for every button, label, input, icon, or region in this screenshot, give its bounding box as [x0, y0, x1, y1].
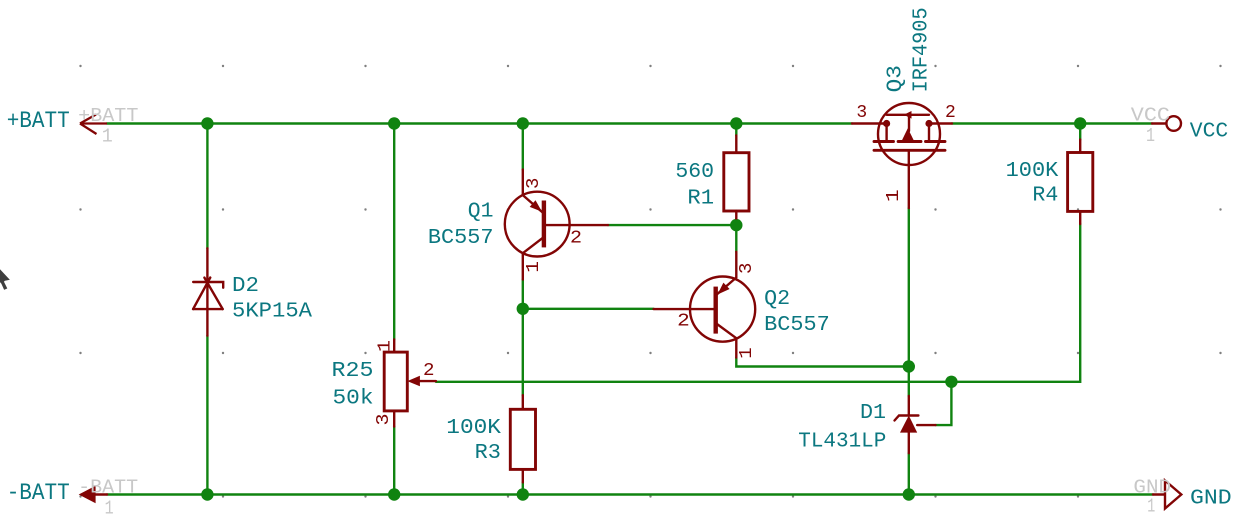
svg-text:Q2: Q2: [764, 287, 790, 311]
wire D1 anode to GND rail: [908, 453, 910, 494]
wire Q1 base to R1 node: [608, 224, 736, 226]
wire Q1 emitter branch: [522, 124, 524, 170]
svg-text:1: 1: [524, 261, 544, 273]
svg-text:1: 1: [376, 340, 396, 352]
wire Q1 collector to R3: [522, 280, 524, 396]
junction top rail at Q1: [517, 117, 529, 129]
resistor R3: [510, 395, 535, 482]
svg-text:TL431LP: TL431LP: [798, 429, 886, 453]
wire R1 bottom to Q2 emitter: [735, 219, 737, 252]
svg-text:1: 1: [1146, 125, 1155, 147]
wire divider: pot wiper to R4 bottom: [436, 224, 1080, 382]
svg-text:5KP15A: 5KP15A: [232, 300, 312, 324]
svg-text:R1: R1: [687, 187, 714, 211]
svg-text:50k: 50k: [333, 386, 374, 410]
transistor Q3 IRF4905 (P-MOSFET): [852, 103, 952, 208]
svg-text:R25: R25: [332, 359, 374, 383]
wire Q3 gate vertical: [908, 208, 910, 396]
svg-text:GND: GND: [1190, 486, 1232, 510]
junction bottom rail at D1: [903, 488, 915, 500]
wire D2 branch lower: [206, 336, 208, 495]
wire Q1 collector node to Q2 base: [523, 308, 654, 310]
svg-text:2: 2: [677, 312, 690, 332]
junction bottom rail at R25: [388, 488, 400, 500]
svg-text:100K: 100K: [1006, 159, 1059, 183]
wire R3 bottom: [522, 482, 524, 494]
junction divider / D1 ref: [945, 376, 957, 388]
svg-text:2: 2: [423, 361, 435, 381]
svg-text:560: 560: [675, 160, 714, 184]
junction bottom rail at R3: [517, 488, 529, 500]
transistor Q1 BC557 (PNP, mirrored): [505, 170, 608, 280]
resistor R1: [724, 135, 749, 218]
svg-text:3: 3: [374, 414, 394, 426]
svg-text:1: 1: [1147, 495, 1155, 517]
junction bottom rail at D2: [201, 488, 213, 500]
junction Q2 collector / Q3 gate net: [903, 360, 915, 372]
wire D2 branch upper: [206, 124, 208, 249]
diode D2 5KP15A (TVS): [193, 248, 223, 335]
connector P -BATT pin (filled arrow): [79, 486, 107, 503]
junction top rail at R1: [730, 117, 742, 129]
potentiometer R25: [384, 340, 436, 427]
svg-text:3: 3: [737, 263, 757, 274]
wire R25 branch lower: [393, 427, 395, 495]
junction top rail at R4: [1074, 117, 1086, 129]
junction top rail at D2: [201, 117, 213, 129]
svg-text:1: 1: [102, 126, 113, 148]
connector P +BATT pin (open arrow): [80, 115, 107, 135]
svg-text:+BATT: +BATT: [78, 105, 138, 127]
svg-text:BC557: BC557: [764, 313, 830, 337]
transistor Q2 BC557 (PNP): [654, 252, 756, 358]
svg-text:1: 1: [737, 347, 757, 359]
wire top rail right of Q3 to VCC: [952, 122, 1152, 124]
svg-text:BC557: BC557: [428, 226, 494, 250]
junction top rail at R25: [388, 117, 400, 129]
wire Q2 collector down and right: [736, 358, 909, 367]
diode D1 TL431LP: [895, 396, 936, 453]
junction Q1 collector / Q2 base / R3: [517, 303, 529, 315]
svg-text:VCC: VCC: [1190, 120, 1228, 144]
svg-text:D2: D2: [232, 274, 259, 298]
svg-text:VCC: VCC: [1131, 104, 1170, 126]
svg-text:Q1: Q1: [468, 200, 494, 224]
wire bottom -BATT/GND rail: [107, 493, 1153, 495]
svg-text:3: 3: [524, 178, 544, 189]
svg-text:2: 2: [570, 228, 582, 248]
mouse cursor: [0, 258, 12, 291]
svg-text:3: 3: [856, 103, 867, 123]
svg-text:1: 1: [884, 189, 904, 202]
connector VCC pin (open circle): [1152, 116, 1181, 131]
connector GND pin (open arrow): [1153, 481, 1181, 509]
svg-text:D1: D1: [860, 401, 886, 425]
grid dots: [79, 65, 1221, 498]
svg-text:1: 1: [105, 497, 114, 519]
wire R1 top stub: [735, 124, 737, 136]
svg-text:-BATT: -BATT: [7, 480, 70, 506]
wire R4 top stub: [1079, 124, 1081, 140]
wire D1 ref to divider node: [936, 382, 952, 425]
svg-text:-BATT: -BATT: [78, 476, 138, 498]
svg-text:Q3: Q3: [884, 65, 908, 92]
svg-text:R3: R3: [475, 441, 501, 465]
wire R25 branch upper: [393, 124, 395, 340]
svg-text:IRF4905: IRF4905: [910, 7, 934, 92]
svg-text:2: 2: [945, 103, 956, 123]
svg-text:+BATT: +BATT: [7, 108, 70, 134]
junction R1 bottom / Q1 base / Q2 emitter: [730, 219, 742, 231]
svg-text:100K: 100K: [446, 416, 501, 440]
svg-text:R4: R4: [1032, 184, 1058, 208]
wire top +BATT rail left of Q3: [107, 122, 852, 124]
resistor R4: [1068, 140, 1093, 224]
